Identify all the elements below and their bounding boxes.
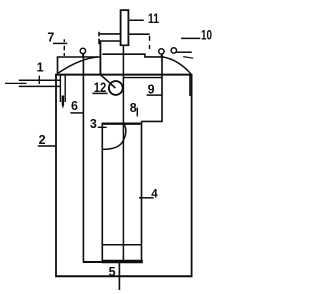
pipe 11 bottom cap bbox=[120, 44, 129, 46]
column top bar bbox=[102, 122, 141, 124]
pipe 11 bbox=[121, 10, 129, 46]
valve ball C bbox=[171, 48, 176, 53]
valve bracket line bbox=[183, 57, 193, 59]
lid left top edge bbox=[58, 57, 101, 74]
svg-text:5: 5 bbox=[109, 265, 116, 279]
leader 1 tick bbox=[38, 76, 40, 84]
inlet pipe 1 center line bbox=[5, 82, 27, 84]
rod to float bbox=[101, 75, 116, 88]
overflow pipe 9 bbox=[141, 55, 162, 122]
vessel right wall bbox=[191, 74, 193, 277]
svg-text:11: 11 bbox=[148, 10, 159, 26]
dip tube rod bbox=[62, 96, 64, 106]
underline 2 bbox=[38, 145, 56, 147]
inlet pipe 1 top line bbox=[19, 79, 61, 81]
knob ball on lid bbox=[80, 48, 85, 53]
lid plate lower line left tick bbox=[98, 39, 100, 45]
drain pipe 5 bbox=[118, 262, 120, 290]
column right wall bbox=[141, 121, 143, 261]
valve lever line bbox=[177, 51, 192, 53]
svg-text:10: 10 bbox=[201, 26, 212, 42]
central tube bbox=[122, 46, 124, 262]
right wall inner sleeve bbox=[189, 75, 191, 96]
underline 12 bbox=[92, 92, 107, 94]
leader 7 dashes bbox=[63, 39, 65, 56]
vessel left wall bbox=[55, 74, 57, 277]
dip tube right wall bbox=[64, 75, 66, 103]
column inner bottom line bbox=[102, 244, 142, 246]
manhole neck left wall bbox=[99, 41, 101, 75]
column bottom bar bbox=[102, 260, 143, 264]
vessel flange line bbox=[55, 74, 191, 76]
leader 10 bbox=[181, 37, 200, 39]
dip tube rod tip bbox=[62, 105, 64, 109]
valve ball B bbox=[159, 49, 164, 54]
svg-text:7: 7 bbox=[47, 30, 54, 44]
deflector curve 3 bbox=[103, 124, 126, 150]
vessel bottom bbox=[55, 275, 192, 277]
lid plate lower line bbox=[99, 40, 120, 42]
svg-text:4: 4 bbox=[151, 189, 158, 201]
leader 7 bbox=[53, 42, 67, 44]
svg-text:2: 2 bbox=[39, 133, 46, 147]
hidden edge dashes right of plate bbox=[149, 36, 151, 49]
column left wall bbox=[101, 123, 103, 261]
second flange line bbox=[124, 77, 162, 79]
svg-text:12: 12 bbox=[94, 79, 107, 95]
lid plate upper line left tick bbox=[98, 32, 100, 37]
lid right dome curve bbox=[163, 57, 191, 74]
leader 11 bbox=[128, 19, 144, 21]
leader 4 bbox=[139, 197, 154, 199]
float ball 12 bbox=[109, 81, 123, 95]
lid plate upper line bbox=[99, 33, 150, 35]
underline 9 bbox=[147, 94, 163, 96]
valve ball B stub bbox=[160, 54, 162, 57]
inlet pipe 1 bottom line bbox=[19, 85, 61, 87]
svg-text:6: 6 bbox=[71, 99, 78, 113]
leader 8 tick bbox=[136, 108, 138, 117]
underline 6 bbox=[70, 112, 83, 114]
inner tank bottom bbox=[83, 261, 103, 263]
svg-text:3: 3 bbox=[90, 117, 97, 131]
svg-text:8: 8 bbox=[130, 101, 137, 115]
inner tank left wall bbox=[82, 54, 84, 263]
dip tube left wall bbox=[59, 75, 61, 103]
lid inner dome curve bbox=[58, 57, 97, 73]
knob stub bbox=[82, 53, 84, 57]
svg-text:9: 9 bbox=[148, 83, 155, 97]
svg-text:1: 1 bbox=[37, 60, 44, 74]
lid top right of neck bbox=[102, 54, 163, 57]
leader 3 bbox=[98, 126, 107, 128]
